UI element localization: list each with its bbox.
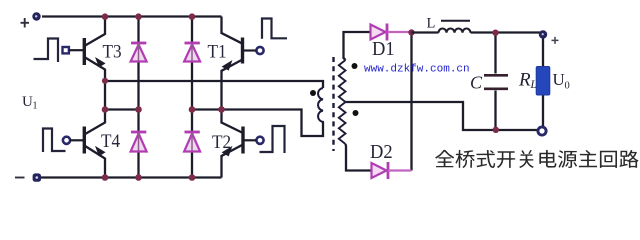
node A column bbox=[104, 81, 106, 110]
pulse input T3 bbox=[34, 39, 59, 63]
transistor T3 bbox=[84, 17, 105, 81]
transistor T4 bbox=[84, 110, 105, 178]
wire T2 base bbox=[243, 139, 256, 141]
svg-text:T3: T3 bbox=[103, 40, 122, 61]
node T1 base terminal bbox=[256, 47, 263, 54]
node rail dots bbox=[102, 13, 225, 180]
svg-text:0: 0 bbox=[565, 81, 570, 92]
wire D1/D2 junction column bbox=[410, 32, 412, 171]
transformer primary winding bbox=[318, 88, 323, 122]
wire lower mid rail left bbox=[105, 108, 139, 110]
node T4 base terminal bbox=[63, 137, 70, 144]
label - (input) bbox=[15, 177, 25, 179]
wire secondary top to D1 bbox=[344, 32, 371, 60]
wire node B rail to primary bottom bbox=[192, 110, 323, 137]
transistor T2 (mirrored) bbox=[222, 110, 244, 178]
svg-text:1: 1 bbox=[33, 101, 38, 112]
svg-text:D1: D1 bbox=[372, 38, 395, 60]
diode D1 bbox=[371, 24, 412, 41]
diode D-T4 (antiparallel, lower-left) bbox=[131, 110, 147, 178]
capacitor C plates bbox=[484, 75, 508, 89]
diode D-T3 (antiparallel, upper-left) bbox=[131, 17, 147, 110]
diode D2 bbox=[372, 162, 412, 179]
node T3 base terminal bbox=[63, 47, 69, 53]
svg-text:www.dzkfw.com.cn: www.dzkfw.com.cn bbox=[364, 64, 470, 76]
wire center tap to output return bbox=[346, 102, 538, 130]
label + (input) bbox=[21, 18, 30, 28]
diode D-T2 (antiparallel, lower-right) bbox=[184, 110, 200, 178]
svg-text:C: C bbox=[470, 73, 483, 93]
svg-text:T4: T4 bbox=[101, 130, 120, 151]
svg-text:U: U bbox=[553, 70, 565, 89]
wire node A rail to transformer bbox=[105, 81, 323, 88]
transformer secondary winding bbox=[339, 60, 346, 144]
node secondary lower polarity dot bbox=[353, 110, 359, 116]
node - input terminal bbox=[33, 173, 41, 181]
diode D-T1 (antiparallel, upper-right) bbox=[184, 17, 200, 110]
node cap bottom dot bbox=[493, 127, 499, 133]
node output - terminal bbox=[538, 127, 546, 135]
wire T3 base bbox=[69, 49, 84, 51]
node cap top dot bbox=[492, 30, 498, 36]
wire top rail bbox=[42, 15, 222, 17]
label + (output) bbox=[552, 37, 559, 44]
node primary polarity dot bbox=[310, 90, 316, 96]
svg-text:D2: D2 bbox=[370, 142, 393, 164]
node T2 base terminal bbox=[256, 137, 263, 144]
node output + terminal bbox=[539, 30, 547, 38]
pulse input T1 bbox=[262, 19, 287, 39]
wire T1 base bbox=[243, 49, 257, 51]
svg-text:L: L bbox=[427, 15, 436, 31]
pulse input T4 bbox=[43, 129, 66, 153]
svg-text:T1: T1 bbox=[208, 40, 227, 61]
transformer core bbox=[332, 57, 334, 151]
wire secondary bottom to D2 bbox=[346, 144, 371, 171]
wire T4 base bbox=[70, 139, 84, 141]
node junction dot D1-L bbox=[408, 29, 414, 35]
node secondary top polarity dot bbox=[352, 63, 358, 69]
resistor RL body bbox=[536, 67, 550, 96]
node + input terminal bbox=[32, 12, 40, 20]
transistor T1 (mirrored) bbox=[222, 17, 243, 110]
svg-text:T2: T2 bbox=[212, 131, 231, 152]
inductor L bbox=[412, 21, 544, 33]
wire bottom rail bbox=[41, 176, 222, 178]
label title 全桥式开关电源主回路 bbox=[435, 150, 638, 168]
capacitor C leads bbox=[494, 33, 496, 131]
svg-text:R: R bbox=[518, 70, 531, 91]
resistor RL leads bbox=[542, 33, 544, 131]
pulse input T2 bbox=[260, 126, 285, 153]
svg-text:U: U bbox=[22, 94, 33, 110]
svg-text:L: L bbox=[530, 79, 537, 91]
